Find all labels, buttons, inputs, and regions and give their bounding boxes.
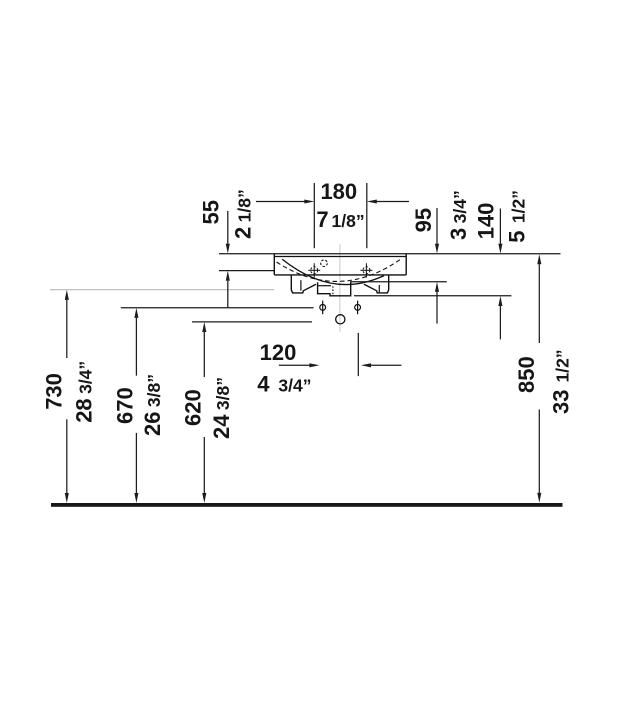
dim 180 right arrow [376, 201, 409, 203]
svg-text:5 1/2”: 5 1/2” [505, 190, 530, 243]
dim 620 extension line [192, 321, 312, 323]
dim 55 line lower [227, 281, 229, 308]
fixing hole right (dashed circle + cross) [363, 267, 370, 274]
right mounting bracket [364, 275, 389, 293]
wire rim extension line [219, 253, 561, 255]
dim 120 extension line [357, 333, 359, 376]
svg-text:180: 180 [320, 179, 357, 204]
svg-text:26 3/8”: 26 3/8” [140, 374, 165, 436]
svg-text:670: 670 [113, 387, 138, 424]
svg-text:28 3/4”: 28 3/4” [71, 361, 96, 423]
left mounting bracket [291, 275, 316, 293]
drain fitting box [318, 281, 351, 296]
washbasin bowl front arc (solid) [282, 259, 384, 284]
washbasin bowl hidden arc (dashed) [277, 259, 402, 282]
svg-text:7 1/8”: 7 1/8” [316, 207, 364, 232]
drain circle [336, 315, 345, 324]
svg-text:95: 95 [411, 208, 436, 232]
dim 140 line lower [499, 306, 501, 339]
dim 180 left arrow [256, 201, 305, 203]
dim 95 line lower [436, 292, 438, 324]
dim 730 line [66, 300, 68, 358]
wire center axis line [339, 244, 341, 332]
svg-text:24 3/8”: 24 3/8” [209, 377, 234, 439]
wire fixing-hole centerline extension [219, 270, 274, 272]
dim 95 line upper [436, 208, 438, 244]
dim 850 line [538, 264, 540, 343]
faucet hole symbol left (phi) [320, 305, 326, 311]
dim 95 extension line [351, 281, 447, 283]
overflow hole (dashed circle) [321, 260, 328, 267]
svg-text:33 1/2”: 33 1/2” [549, 349, 574, 414]
dim 620 line [203, 332, 205, 377]
svg-text:850: 850 [514, 356, 539, 393]
dim 120 right arrow [371, 364, 402, 366]
washbasin body rectangle [274, 254, 406, 275]
svg-text:3 3/4”: 3 3/4” [446, 190, 471, 240]
svg-text:2 1/8”: 2 1/8” [231, 189, 256, 239]
svg-text:4 3/4”: 4 3/4” [257, 372, 311, 397]
dim 55 line upper [227, 211, 229, 244]
washbasin rim top second line [274, 256, 406, 258]
dim 670 line [135, 318, 137, 376]
dim 140 extension line [354, 295, 511, 297]
faucet hole symbol right (phi) [355, 305, 361, 311]
svg-text:140: 140 [474, 203, 499, 240]
svg-text:55: 55 [199, 200, 224, 224]
svg-text:120: 120 [260, 340, 297, 365]
floor line [51, 503, 563, 507]
dim 670 extension line [121, 307, 314, 309]
svg-text:730: 730 [41, 373, 66, 410]
wire 730 reference line (light) [50, 289, 274, 291]
dim 140 line upper [499, 209, 501, 244]
dim 180 extension lines [313, 183, 315, 248]
dim 120 left arrow [279, 364, 310, 366]
svg-text:620: 620 [181, 389, 206, 426]
fixing hole left (dashed circle + cross) [311, 267, 318, 274]
